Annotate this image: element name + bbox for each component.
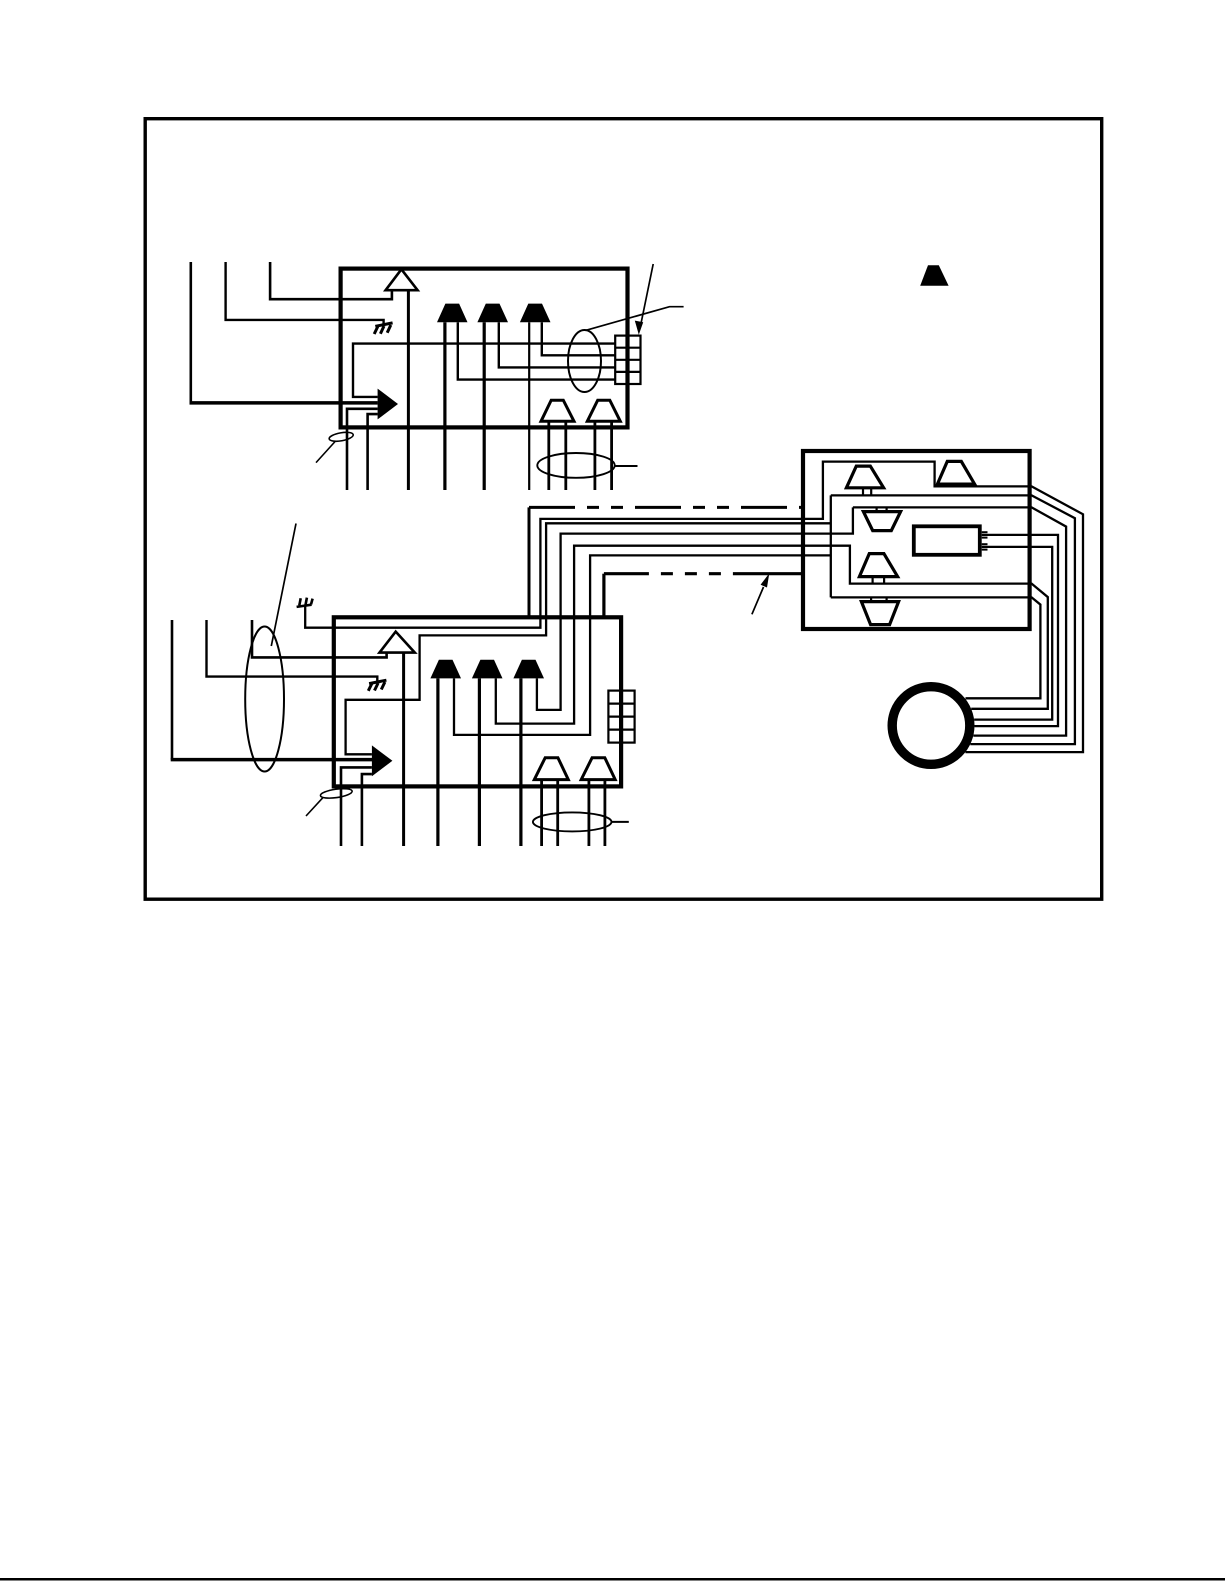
power arrow symbol lower box xyxy=(372,745,393,776)
antenna trapezoid T2 top box xyxy=(477,304,508,323)
callout arrow to shield wire L7 xyxy=(752,587,764,614)
callout leader to cable ellipse xyxy=(586,307,684,331)
antenna trapezoid LT2 lower box xyxy=(472,660,503,679)
wire L4 run to inverted trapezoid IT1 xyxy=(537,507,853,710)
figure border frame xyxy=(145,119,1101,900)
wire L7 shield dash-dot (lower) xyxy=(602,574,605,619)
connector trapezoid IT1 inverted xyxy=(863,512,900,531)
antenna feed wire lower box xyxy=(402,653,405,846)
box U1 transceiver (top) xyxy=(341,269,628,428)
connector trapezoid U1 (junction box) xyxy=(846,466,883,488)
power arrow symbol top box xyxy=(378,389,398,420)
open trapezoid LOT2 lower box xyxy=(581,758,615,780)
callout leader to cable sheath xyxy=(271,524,296,647)
wire L6 run xyxy=(454,555,831,735)
antenna trapezoid T1 top box xyxy=(437,304,468,323)
wire W1 power lead (thick) top box xyxy=(190,262,193,403)
pin 1 wire to toroid xyxy=(975,535,1059,726)
pin 2 wire to toroid xyxy=(974,547,1052,720)
page footer rule xyxy=(0,1578,1225,1581)
wire W5 power lead (thick) lower box xyxy=(171,620,174,760)
wire arrow lead 4 top box xyxy=(368,414,378,490)
wire W4 through trapezoid U1 to toroid xyxy=(831,495,1075,744)
wire bus row1 to arrow top box xyxy=(353,344,615,397)
antenna trapezoid LT1 lower box xyxy=(430,660,461,679)
clamp leader line top box xyxy=(316,442,335,463)
connector J2 grid lower box xyxy=(608,691,634,743)
wire W7 antenna lead lower box xyxy=(252,620,387,657)
box U2 transceiver (lower) xyxy=(334,617,621,786)
open trapezoid OT1 top box xyxy=(541,400,574,421)
cable sheath ellipse (left of lower box) xyxy=(245,627,284,772)
antenna feed wire xyxy=(407,290,410,490)
open trapezoid LOT1 lower box xyxy=(534,758,568,780)
wire L5 run through trapezoid U3 to toroid xyxy=(496,546,1048,724)
wire spine junction box left xyxy=(830,495,832,597)
wire W2 ground lead top box xyxy=(226,262,384,325)
ground chassis symbol lower box xyxy=(368,680,386,691)
connector trapezoid U4 lower xyxy=(859,554,897,577)
wire L3 arrow feed run xyxy=(346,523,831,754)
toroid ferrite ring xyxy=(892,687,970,765)
antenna trapezoid LT3 lower box xyxy=(513,660,544,679)
wire arrow lead 4 lower box xyxy=(362,774,372,846)
cable bundle ellipse top box xyxy=(568,330,601,392)
box U3 junction box (right) xyxy=(803,451,1030,629)
wire L1 shield dash-dot (upper) xyxy=(528,507,531,618)
clamp leader line lower box xyxy=(306,797,323,816)
ground comb symbol (external, lower box) xyxy=(297,598,313,607)
open trapezoid OT2 top box xyxy=(587,400,620,421)
connector J1 grid top box xyxy=(615,336,640,384)
connector trapezoid IT2 inverted lower xyxy=(861,602,898,625)
antenna triangle top box xyxy=(386,269,418,290)
antenna trapezoid T3 top box xyxy=(520,304,551,323)
cable clamp ellipse top box xyxy=(328,431,353,443)
wire W6 ground lead lower box xyxy=(207,620,378,681)
cable oval below top box xyxy=(537,453,614,478)
wire arrow lead 3 top box xyxy=(347,409,378,490)
connector trapezoid U2 (junction box top right) xyxy=(937,461,974,484)
ground chassis symbol top box xyxy=(374,323,392,334)
wire W3 antenna lead top box xyxy=(270,262,392,299)
callout arrow to connector J1 xyxy=(641,264,653,324)
wire IT2 row to toroid xyxy=(831,597,1041,698)
cable clamp ellipse lower box xyxy=(320,787,353,800)
cable oval below lower box xyxy=(533,812,612,831)
pin stubs module K1 xyxy=(982,531,988,533)
wire IT1 row to toroid xyxy=(853,507,1066,735)
relay module K1 xyxy=(914,526,980,555)
wire L2 ground run to junction box and toroid xyxy=(305,462,1083,752)
wire arrow lead 3 lower box xyxy=(341,767,372,846)
antenna triangle lower box xyxy=(380,632,415,653)
warning triangle marker xyxy=(920,265,948,286)
